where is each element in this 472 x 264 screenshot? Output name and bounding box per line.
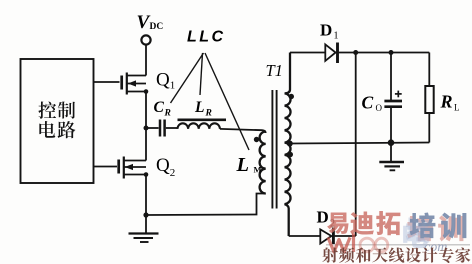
svg-text:O: O [376, 103, 383, 113]
diode D1 [325, 43, 337, 64]
LLC pointer to L_M [205, 53, 249, 150]
secondary center tap dot [287, 141, 293, 147]
node V_DC terminal [141, 35, 150, 44]
node B ground junction [143, 212, 148, 217]
wire gate drive to Q2 [94, 166, 118, 168]
svg-text:R: R [440, 92, 453, 112]
wire bottom return to primary [146, 194, 266, 216]
svg-text:1: 1 [334, 31, 339, 42]
primary polarity dot [254, 137, 259, 142]
label Q2 [156, 155, 175, 179]
svg-text:R: R [164, 109, 171, 119]
svg-text:Q: Q [156, 155, 170, 176]
label Q1 [156, 70, 175, 92]
svg-text:D: D [320, 21, 332, 40]
diode D2 [320, 228, 355, 245]
ground secondary side [379, 143, 404, 171]
transformer T1 primary winding L_M [260, 132, 266, 194]
watermark [322, 211, 470, 263]
control circuit box U-ctrl [21, 59, 94, 183]
svg-text:C: C [154, 99, 165, 116]
secondary lower polarity dot [287, 152, 293, 158]
wire VDC to Q1 drain [145, 44, 147, 75]
resistor R_L [425, 53, 433, 143]
svg-text:2: 2 [170, 167, 176, 179]
svg-text:LLC: LLC [187, 29, 226, 46]
label D2 [317, 208, 336, 230]
label L_M [236, 154, 262, 176]
inductor L_R [178, 120, 227, 129]
svg-text:D: D [317, 208, 329, 227]
capacitor C_O (polarized) [384, 53, 402, 143]
wire secondary top to D1 anode [290, 52, 325, 54]
wire output top rail [339, 52, 430, 54]
junction dot output ground [388, 139, 395, 146]
wire L_R to transformer primary [220, 129, 266, 133]
wire gate drive to Q1 [94, 81, 120, 83]
wire D2 cathode branch [355, 53, 357, 237]
transformer T1 secondary winding [285, 53, 291, 237]
junction dot D2 branch [353, 50, 358, 55]
transistor Q1 (NMOS) [122, 73, 149, 95]
wire Q1 source to node A [145, 92, 147, 129]
LLC pointer to C_R [171, 53, 204, 103]
svg-text:R: R [205, 109, 212, 119]
label R_L [440, 92, 460, 113]
label D1 [320, 21, 339, 42]
svg-text:DC: DC [150, 22, 164, 32]
svg-text:1: 1 [170, 80, 176, 92]
label V_DC [137, 12, 164, 33]
secondary top polarity dot [289, 94, 294, 99]
node A half-bridge midpoint [144, 126, 149, 131]
label C_R [154, 99, 171, 119]
transistor Q2 (NMOS) [119, 157, 149, 179]
svg-text:L: L [194, 99, 204, 116]
svg-text:V: V [137, 12, 151, 33]
wire secondary bottom to D2 anode [289, 235, 321, 237]
label C_O [362, 93, 383, 114]
wire center tap to output bottom rail [290, 143, 430, 144]
label L_R [194, 99, 212, 119]
svg-text:L: L [236, 154, 250, 176]
svg-text:Q: Q [156, 70, 170, 91]
svg-text:L: L [454, 103, 460, 113]
LLC pointer to L_R [200, 53, 203, 95]
wire node A to Q2 drain [145, 128, 147, 161]
junction dot C_O branch [389, 50, 394, 55]
ground primary side [129, 215, 159, 242]
wire Q2 source to ground node [145, 175, 147, 216]
svg-text:T1: T1 [266, 61, 283, 80]
svg-text:C: C [362, 93, 374, 113]
capacitor C_R [146, 120, 178, 137]
svg-text:M: M [254, 165, 262, 175]
transformer core [272, 90, 276, 209]
